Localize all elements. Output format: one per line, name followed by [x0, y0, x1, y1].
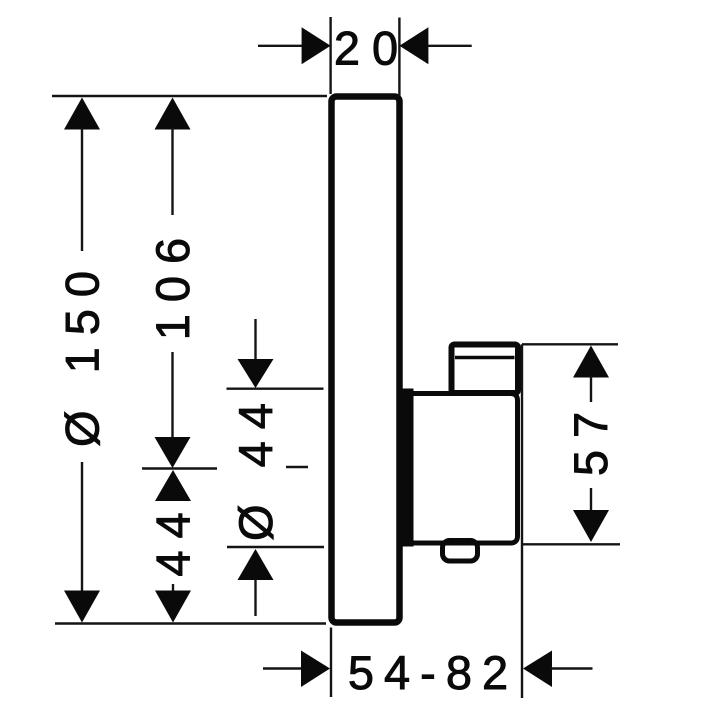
extension line at bottom of plate	[55, 622, 326, 624]
dimension 20 left arrow	[258, 27, 331, 64]
svg-text:Ø 44: Ø 44	[229, 391, 282, 541]
black spacer bar between plate and valve body	[400, 389, 414, 547]
dimension text 106	[146, 226, 199, 340]
dimension Ø150 top arrow	[64, 98, 100, 252]
left vertical extension line (54-82)	[330, 628, 332, 698]
escutcheon plate (side profile)	[332, 97, 400, 623]
knob top section	[452, 345, 519, 394]
dimension Ø150 bottom arrow	[64, 462, 100, 623]
dimension text Ø44	[229, 391, 282, 541]
extension line bottom of valve body (dim 57)	[522, 543, 620, 545]
svg-text:54-82: 54-82	[348, 646, 518, 699]
dimension text Ø150	[56, 259, 109, 447]
dimension text 57	[564, 400, 617, 476]
dimension 44 top arrow	[155, 470, 191, 501]
dimension 106 bottom arrow	[155, 352, 191, 468]
dimension Ø44 upper arrow (outside, pointing down)	[238, 319, 274, 388]
dimension text 54-82	[348, 646, 518, 699]
extension tick top of valve body	[227, 388, 324, 390]
dimension Ø44 lower arrow (outside, pointing up)	[238, 549, 274, 616]
dimension 57 top arrow	[573, 346, 609, 403]
svg-text:20: 20	[334, 22, 410, 75]
svg-text:57: 57	[564, 400, 617, 476]
extension tick bottom of valve body	[227, 546, 324, 548]
svg-text:Ø 150: Ø 150	[56, 259, 109, 447]
right vertical extension line (54-82)	[521, 344, 523, 698]
mounting tab below valve body	[402, 541, 508, 562]
dimension 54-82 right arrow	[523, 651, 593, 688]
dimension 54-82 left arrow	[263, 651, 330, 688]
svg-text:44: 44	[147, 500, 200, 576]
centre tick at valve axis	[142, 467, 308, 469]
dimension 57 bottom arrow	[573, 488, 609, 542]
extension line across top of plate	[52, 95, 327, 97]
dimension 106 top arrow	[155, 98, 191, 216]
extension line top of knob (dim 57)	[522, 343, 618, 345]
dimension 20 right arrow	[399, 27, 471, 64]
dimension text 20	[334, 22, 410, 75]
svg-text:106: 106	[146, 226, 199, 340]
dimension 44 bottom arrow	[155, 584, 191, 623]
extension line top right of plate (dim 20)	[398, 18, 400, 97]
dimension text 44	[147, 500, 200, 576]
extension line top left of plate (dim 20)	[329, 17, 331, 94]
valve body (handle base, side view)	[402, 394, 518, 544]
